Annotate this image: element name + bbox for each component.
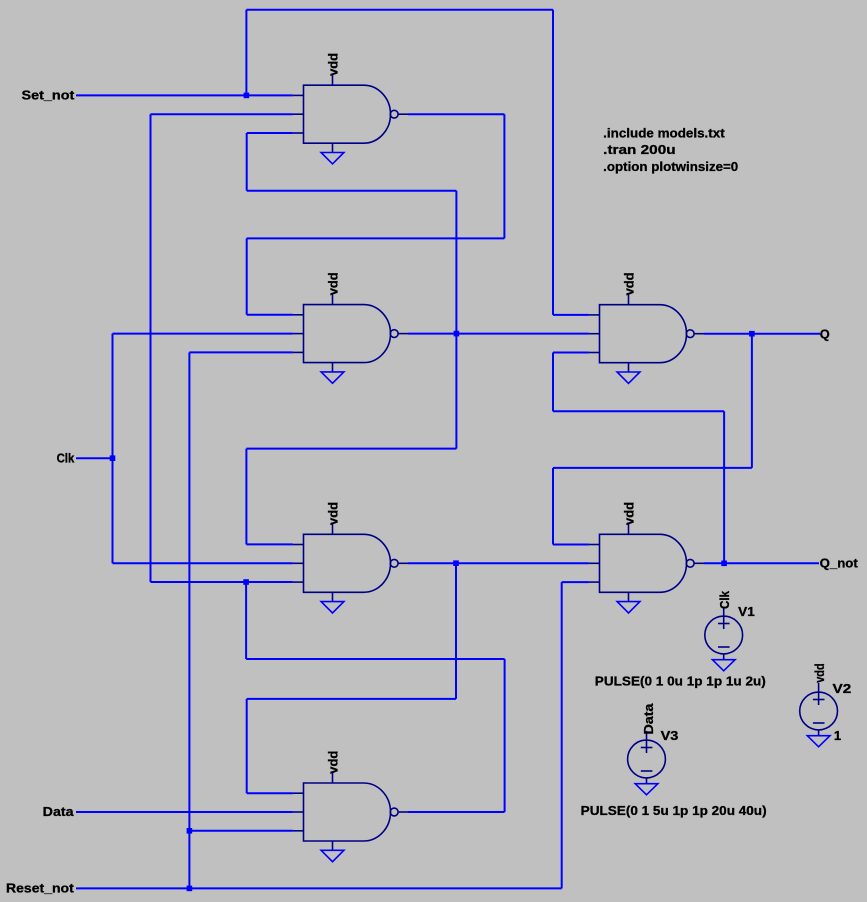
svg-text:Reset_not: Reset_not	[6, 881, 75, 896]
G1 input pin 1	[293, 94, 304, 96]
wire G2 out lower horizontal	[246, 448, 456, 450]
wire G3 out down	[455, 563, 457, 699]
wire G4 out horizontal	[246, 658, 505, 660]
G1 input pin 2	[293, 113, 304, 115]
svg-text:.tran 200u: .tran 200u	[603, 142, 675, 157]
svg-text:vdd: vdd	[621, 502, 636, 525]
V3 bottom pin	[646, 778, 648, 784]
wire into G4 input 1	[247, 792, 293, 794]
G4 input pin 1	[293, 792, 304, 794]
G2 output bubble	[390, 330, 398, 338]
G6 input pin 2	[589, 562, 600, 564]
wire into G2 input 3	[189, 351, 293, 353]
wire Q_not up to G5 input 3	[552, 353, 554, 412]
wire into G6 input 3	[562, 581, 589, 583]
junction G4 input 3	[187, 828, 193, 834]
junction G3 output	[453, 560, 459, 566]
NAND gate G4 body	[304, 783, 391, 841]
junction Reset_not at vertical	[187, 886, 193, 892]
wire G4 out long vertical	[150, 114, 152, 582]
G2 ground pin	[332, 363, 334, 372]
wire into G1 input 3	[247, 132, 293, 134]
V3 minus sign	[641, 770, 653, 772]
wire G4 out up	[504, 659, 506, 812]
wire G3 output to G6 input 2	[408, 562, 589, 564]
G5 ground pin	[628, 363, 630, 372]
svg-text:vdd: vdd	[325, 751, 340, 774]
wire Data to G4 input 2	[76, 811, 293, 813]
ground symbol at G4	[321, 850, 344, 861]
junction Q_not	[721, 561, 727, 567]
wire G6 output to Q_not	[704, 562, 819, 564]
wire into G3 input 3	[151, 581, 293, 583]
svg-text:vdd: vdd	[621, 272, 636, 295]
wire G2 out vertical	[455, 191, 457, 449]
junction G2 output	[454, 331, 460, 337]
V1 top pin	[723, 607, 725, 629]
svg-text:PULSE(0 1 0u 1p 1p 1u 2u): PULSE(0 1 0u 1p 1p 1u 2u)	[595, 674, 766, 689]
G5 output pin	[694, 333, 704, 335]
G3 input pin 1	[293, 544, 304, 546]
wire G1 out down	[503, 114, 505, 238]
wire G3 out left	[247, 698, 456, 700]
ground symbol at V3	[635, 784, 658, 795]
G4 output pin	[398, 811, 408, 813]
G6 ground pin	[628, 592, 630, 601]
NAND gate G1 body	[304, 85, 391, 143]
G2 vdd pin	[332, 294, 334, 305]
wire G2 output to G5 input 2	[408, 333, 589, 335]
junction Set_not	[244, 93, 250, 99]
G6 vdd pin	[628, 524, 630, 535]
svg-text:vdd: vdd	[325, 502, 340, 525]
NAND gate G5 body	[600, 305, 687, 363]
wire down to G3 input 1	[245, 449, 247, 545]
svg-text:.option plotwinsize=0: .option plotwinsize=0	[603, 159, 738, 174]
svg-text:Data: Data	[641, 703, 656, 735]
G3 input pin 2	[293, 562, 304, 564]
G3 vdd pin	[332, 524, 334, 535]
svg-text:V2: V2	[833, 681, 852, 696]
wire Q left	[553, 467, 752, 469]
voltage source V3 circle	[628, 740, 666, 778]
G1 ground pin	[332, 143, 334, 152]
V1 minus sign	[718, 646, 730, 648]
wire into G2 input 2	[113, 333, 293, 335]
wire G1 input 3 vertical	[246, 133, 248, 191]
svg-text:Q_not: Q_not	[820, 556, 859, 571]
wire into G4 input 3	[189, 830, 293, 832]
V2 top pin	[818, 683, 820, 705]
G5 vdd pin	[628, 294, 630, 305]
svg-text:vdd: vdd	[325, 272, 340, 295]
wire top horizontal Set_not	[246, 9, 553, 11]
G6 input pin 1	[589, 544, 600, 546]
ground symbol at G5	[617, 372, 640, 383]
NAND gate G2 body	[304, 305, 391, 363]
wire down to G5 input 1	[552, 10, 554, 315]
wire Q_not left	[553, 410, 724, 412]
wire into G6 input 1	[553, 544, 589, 546]
wire G1 out down to G2	[246, 238, 248, 314]
svg-text:Q: Q	[820, 326, 830, 341]
V1 bottom pin	[723, 654, 725, 660]
svg-text:Set_not: Set_not	[22, 87, 76, 102]
G2 output pin	[398, 333, 408, 335]
wire into G5 input 3	[553, 352, 589, 354]
voltage source V1 circle	[705, 616, 743, 654]
V3 plus sign	[641, 747, 653, 749]
svg-text:PULSE(0 1 5u 1p 1p 20u 40u): PULSE(0 1 5u 1p 1p 20u 40u)	[581, 803, 767, 818]
G5 input pin 3	[589, 352, 600, 354]
svg-text:V3: V3	[661, 728, 679, 743]
V2 minus sign	[813, 722, 825, 724]
junction Q	[749, 331, 755, 337]
wire G4 output	[408, 811, 505, 813]
wire Reset_not long vertical	[188, 352, 190, 888]
svg-text:1: 1	[834, 728, 841, 743]
G1 output bubble	[390, 110, 398, 118]
G2 input pin 1	[293, 314, 304, 316]
svg-text:Clk: Clk	[57, 450, 75, 465]
G3 input pin 3	[293, 581, 304, 583]
wire Q down	[751, 334, 753, 468]
wire to G1 input 3 horizontal	[247, 190, 457, 192]
ground symbol at G2	[321, 372, 344, 383]
wire G5 output to Q	[704, 333, 820, 335]
wire down to G4 input 1	[246, 699, 248, 793]
wire G1 out left	[247, 237, 505, 239]
V3 top pin	[646, 731, 648, 753]
G4 ground pin	[332, 841, 334, 850]
NAND gate G3 body	[304, 534, 391, 592]
wire G3 input 3 junction down	[245, 582, 247, 659]
ground symbol at G3	[321, 602, 344, 613]
G2 input pin 3	[293, 351, 304, 353]
svg-text:.include models.txt: .include models.txt	[603, 126, 725, 141]
G4 input pin 2	[293, 811, 304, 813]
G5 input pin 1	[589, 314, 600, 316]
svg-text:vdd: vdd	[325, 53, 340, 76]
V1 plus sign	[718, 623, 730, 625]
G6 output bubble	[686, 559, 694, 567]
wire Set_not to G1 input 1	[76, 94, 293, 96]
junction Clk	[110, 455, 116, 461]
G6 input pin 3	[589, 581, 600, 583]
G6 output pin	[694, 562, 704, 564]
wire Reset_not right vertical	[561, 582, 563, 888]
wire into G1 input 2	[151, 113, 293, 115]
G3 output pin	[398, 562, 408, 564]
wire Clk lead	[76, 457, 113, 459]
G1 vdd pin	[332, 75, 334, 86]
G3 ground pin	[332, 592, 334, 601]
wire into G2 input 1	[247, 314, 293, 316]
wire Set_not junction up	[245, 10, 247, 96]
svg-text:V1: V1	[738, 604, 755, 619]
wire into G3 input 1	[246, 543, 293, 545]
G3 output bubble	[390, 559, 398, 567]
svg-text:vdd: vdd	[812, 663, 827, 683]
ground symbol at V2	[807, 736, 830, 747]
G4 vdd pin	[332, 773, 334, 784]
wire G1 output	[408, 113, 504, 115]
wire into G3 input 2	[113, 562, 293, 564]
V2 bottom pin	[818, 730, 820, 736]
voltage source V2 circle	[800, 692, 838, 730]
svg-text:Data: Data	[43, 804, 75, 819]
NAND gate G6 body	[600, 534, 687, 592]
G1 input pin 3	[293, 132, 304, 134]
wire Reset_not horizontal	[76, 887, 562, 889]
ground symbol at G1	[321, 153, 344, 164]
wire Clk vertical	[112, 334, 114, 564]
svg-text:Clk: Clk	[717, 590, 732, 609]
V2 plus sign	[813, 699, 825, 701]
G4 output bubble	[390, 808, 398, 816]
G5 input pin 2	[589, 333, 600, 335]
G1 output pin	[398, 113, 408, 115]
ground symbol at G6	[617, 602, 640, 613]
ground symbol at V1	[712, 660, 735, 671]
G4 input pin 3	[293, 830, 304, 832]
G2 input pin 2	[293, 333, 304, 335]
wire Q down to G6 input 1	[552, 468, 554, 545]
wire Q_not up	[723, 411, 725, 563]
wire into G5 input 1	[553, 314, 589, 316]
G5 output bubble	[686, 330, 694, 338]
junction G3 input 3	[243, 579, 249, 585]
